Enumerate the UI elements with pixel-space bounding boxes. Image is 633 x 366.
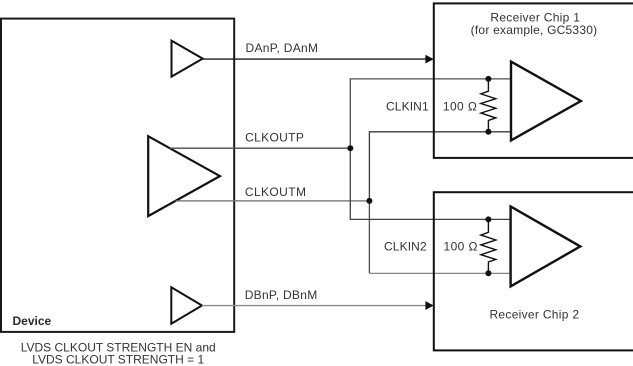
junction dot on CLKOUTP [347, 145, 353, 151]
wire DBnP/DBnM [202, 305, 427, 307]
arrowhead into Receiver Chip 1 [425, 55, 433, 64]
svg-text:CLKOUTM: CLKOUTM [245, 185, 306, 199]
buffer A (top LVDS driver) [172, 41, 203, 77]
receiver amp U2 [511, 206, 581, 286]
svg-text:Receiver Chip 2: Receiver Chip 2 [489, 308, 579, 322]
wire CLKIN2 top branch (vertical drop from CLKOUTP node) [350, 148, 510, 219]
node dot R1 bottom [485, 129, 491, 135]
node dot R1 top [485, 76, 491, 82]
wire CLKOUTP [170, 147, 350, 149]
svg-text:(for example, GC5330): (for example, GC5330) [471, 23, 598, 37]
Receiver Chip 2 box [434, 192, 633, 350]
resistor R2 100 ohm termination [481, 219, 496, 273]
buffer B (bottom LVDS driver) [171, 287, 202, 323]
node dot R2 bottom [485, 270, 491, 276]
resistor R1 100 ohm termination [481, 79, 496, 132]
arrowhead into Receiver Chip 2 [425, 301, 433, 310]
junction dot on CLKOUTM [366, 198, 372, 204]
svg-text:100 Ω: 100 Ω [443, 99, 477, 113]
svg-text:CLKIN1: CLKIN1 [386, 99, 429, 113]
wire CLKOUTM [175, 200, 369, 202]
wire CLKIN1 top branch (vertical riser from CLKOUTP node) [350, 79, 511, 148]
Receiver Chip 1 box [434, 3, 633, 158]
svg-text:DAnP, DAnM: DAnP, DAnM [246, 41, 319, 55]
svg-text:LVDS CLKOUT STRENGTH = 1: LVDS CLKOUT STRENGTH = 1 [32, 352, 204, 366]
svg-text:DBnP, DBnM: DBnP, DBnM [245, 288, 318, 302]
wire CLKIN2 bottom horizontal [369, 272, 510, 274]
device box [1, 19, 234, 332]
wire DAnP/DAnM [203, 58, 427, 60]
wire CLKIN2 bottom branch (vertical drop from CLKOUTM node) [368, 201, 370, 273]
clock driver (big triangle) [148, 136, 220, 216]
svg-text:100 Ω: 100 Ω [444, 240, 478, 254]
node dot R2 top [485, 216, 491, 222]
svg-text:CLKIN2: CLKIN2 [384, 240, 427, 254]
svg-text:Device: Device [13, 314, 52, 328]
receiver amp U1 [511, 62, 581, 141]
svg-text:CLKOUTP: CLKOUTP [245, 131, 304, 145]
wire CLKIN1 bottom branch (vertical riser from CLKOUTM node) [369, 132, 511, 201]
